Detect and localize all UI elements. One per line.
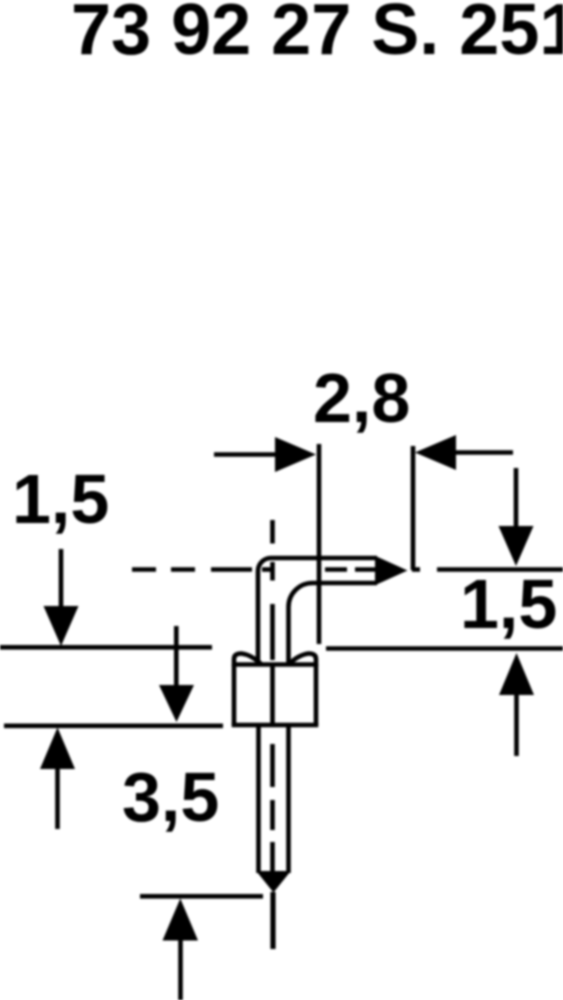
pin horizontal tip (solid point)	[375, 556, 408, 585]
plastic body right ear	[289, 654, 317, 667]
plastic body left ear	[234, 654, 262, 667]
extension line body bottom left	[4, 723, 223, 728]
pin horizontal centerline (dash-dot)	[132, 567, 420, 572]
dimension 2,8 left arrowhead	[275, 437, 316, 472]
dimension 2,8 left line	[214, 452, 276, 457]
dimension 3,5 bottom arrow line	[178, 939, 183, 1000]
dimension 1,5 left up arrow line	[55, 768, 60, 829]
svg-text:73 92 27 S. 251: 73 92 27 S. 251	[71, 0, 563, 70]
body centre seam	[270, 664, 275, 725]
svg-text:1,5: 1,5	[460, 565, 557, 643]
dimension 1,5 right bottom arrow line	[514, 694, 519, 756]
dimension 1,5 left up arrowhead	[40, 728, 75, 770]
pin right-angle contact outline	[258, 558, 377, 663]
pin lower post outline	[259, 725, 289, 873]
dimension 1,5 right bottom arrowhead	[499, 653, 534, 695]
dimension 2,8 right line	[456, 450, 513, 455]
svg-text:1,5: 1,5	[12, 460, 109, 538]
dimension 3,5 top arrowhead	[159, 685, 194, 722]
dimension 1,5 left arrow line	[59, 549, 64, 608]
dimension 1,5 right top arrowhead	[499, 526, 534, 566]
pin centerline below tip	[270, 892, 275, 949]
dimension 3,5 top arrow line	[174, 626, 179, 687]
extension line 2,8 left	[317, 444, 322, 644]
plastic body outline	[232, 665, 319, 726]
pin vertical centerline (dash-dot)	[270, 520, 275, 871]
extension line body top left	[0, 645, 212, 650]
dimension 3,5 bottom arrowhead	[163, 899, 199, 941]
extension line body top right	[326, 646, 563, 651]
dimension 1,5 left arrowhead	[44, 606, 79, 646]
dimension 1,5 right top arrow line	[514, 468, 519, 528]
extension line pin axis right	[437, 567, 563, 572]
pin lower tip (solid point)	[256, 871, 291, 893]
extension line pin tip bottom	[140, 894, 263, 899]
svg-text:2,8: 2,8	[313, 359, 410, 437]
dimension 2,8 right arrowhead	[415, 435, 456, 470]
extension line 2,8 right	[411, 446, 416, 570]
svg-text:3,5: 3,5	[122, 758, 219, 836]
